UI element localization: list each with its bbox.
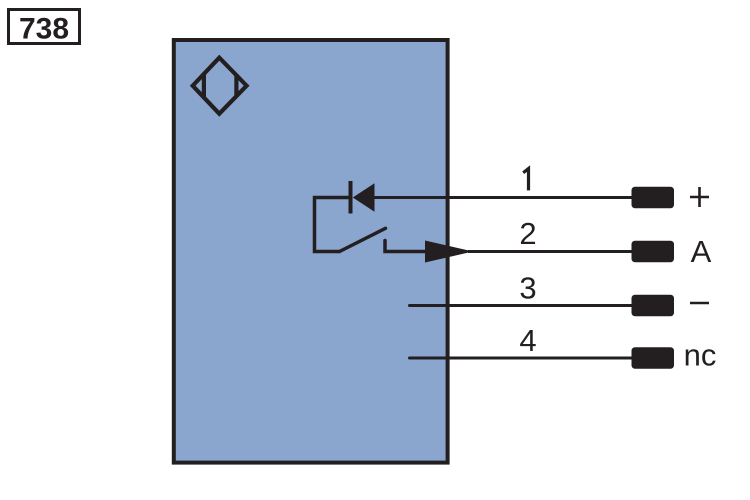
wire 1 (from diode to terminal 1) bbox=[373, 196, 633, 199]
sensor body (blue housing) bbox=[174, 40, 448, 463]
wire 2 (arrow tip to terminal 2) bbox=[468, 250, 633, 253]
pin number 1 bbox=[523, 169, 528, 191]
svg-text:4: 4 bbox=[519, 323, 536, 358]
figure number box 738 bbox=[9, 10, 80, 46]
wire 3 bbox=[410, 304, 634, 307]
terminal 2 bbox=[632, 241, 675, 263]
logo diamond bbox=[193, 58, 247, 114]
svg-text:nc: nc bbox=[684, 338, 717, 373]
terminal 4 bbox=[632, 347, 675, 369]
switch blade bbox=[341, 228, 386, 251]
label minus (terminal 3) bbox=[690, 302, 709, 305]
svg-text:738: 738 bbox=[19, 13, 69, 46]
svg-text:2: 2 bbox=[519, 216, 536, 251]
svg-text:A: A bbox=[691, 234, 712, 269]
terminal 1 bbox=[632, 187, 675, 209]
terminal 3 bbox=[632, 295, 675, 317]
diode D1 triangle bbox=[353, 183, 375, 211]
label + (terminal 1) bbox=[690, 187, 709, 207]
switch fixed contact hook / wire 2 start bbox=[385, 241, 426, 252]
svg-text:3: 3 bbox=[519, 271, 536, 306]
output arrow bbox=[425, 241, 473, 263]
wire 4 bbox=[410, 357, 634, 360]
wire (left bracket: diode anode to switch pivot) bbox=[315, 198, 353, 252]
diode D1 cathode bar bbox=[349, 181, 353, 214]
